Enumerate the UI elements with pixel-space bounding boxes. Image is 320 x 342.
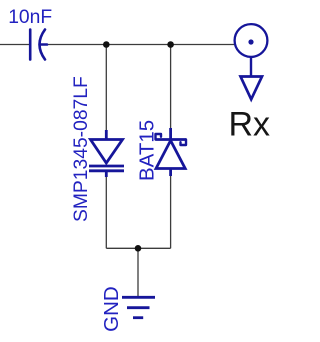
svg-text:BAT15: BAT15 xyxy=(136,120,159,181)
svg-text:GND: GND xyxy=(100,286,123,332)
svg-text:10nF: 10nF xyxy=(8,7,52,28)
svg-text:SMP1345-087LF: SMP1345-087LF xyxy=(71,76,92,222)
svg-text:Rx: Rx xyxy=(229,106,271,144)
